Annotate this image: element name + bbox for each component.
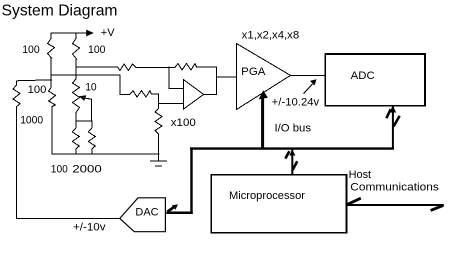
svg-text:+V: +V [101,27,115,39]
svg-text:1000: 1000 [20,114,43,126]
svg-text:PGA: PGA [241,66,266,78]
svg-text:Communications: Communications [350,182,439,194]
svg-text:10: 10 [85,82,97,94]
svg-text:x100: x100 [171,117,196,129]
svg-text:100: 100 [22,44,40,56]
svg-text:100: 100 [51,164,68,176]
svg-text:100: 100 [28,84,47,96]
svg-text:+/-10.24v: +/-10.24v [272,97,320,109]
svg-text:I/O bus: I/O bus [275,123,312,135]
svg-text:x1,x2,x4,x8: x1,x2,x4,x8 [242,29,300,41]
svg-text:System Diagram: System Diagram [2,3,118,20]
svg-text:2000: 2000 [72,164,102,176]
svg-text:Host: Host [349,169,372,181]
svg-text:ADC: ADC [351,70,375,82]
svg-text:100: 100 [88,44,106,56]
svg-text:Microprocessor: Microprocessor [229,190,305,202]
svg-text:DAC: DAC [135,206,158,218]
svg-text:+/-10v: +/-10v [73,222,106,234]
